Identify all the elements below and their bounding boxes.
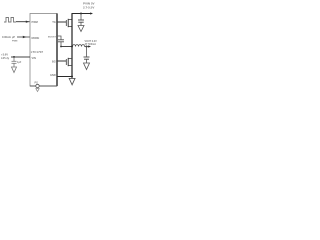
wire MODE input [17, 36, 30, 38]
exposed pad circle [36, 84, 39, 87]
svg-text:100kHz: 100kHz [2, 35, 12, 39]
wire GND pin [57, 76, 73, 78]
svg-text:GND: GND [50, 73, 56, 77]
capacitor C1 [12, 57, 17, 67]
ground under C2 [78, 26, 84, 32]
capacitor C3 [58, 40, 64, 47]
IC U1 regulator body [30, 14, 57, 87]
ground under C4 [84, 63, 90, 70]
arrow into PWM pin [26, 21, 29, 23]
wire Q2 source down [71, 66, 73, 77]
wire PWM input [16, 21, 30, 23]
svg-text:µP: µP [12, 36, 15, 39]
node PGND junction [71, 76, 73, 78]
wire boost to SW [61, 46, 72, 48]
wire stub to ground [71, 77, 73, 79]
square wave source [4, 18, 16, 23]
node rail junction [80, 13, 82, 15]
node VIN junction [13, 56, 15, 58]
arrow into MODE pin [23, 36, 27, 39]
svg-text:PWM: PWM [32, 20, 38, 24]
node SW junction [71, 46, 73, 48]
node VOUT junction [86, 46, 88, 48]
ground under C1 [12, 67, 17, 73]
svg-text:+3.6V: +3.6V [1, 53, 8, 57]
svg-text:TG: TG [52, 20, 56, 24]
svg-text:AT 500mA: AT 500mA [85, 43, 97, 46]
svg-text:LTC1707: LTC1707 [31, 50, 44, 54]
ground main [69, 78, 75, 84]
svg-text:BOOST: BOOST [48, 37, 56, 39]
node boost junction [60, 46, 62, 48]
ground under pad [36, 89, 39, 92]
svg-text:2.7-5.5V: 2.7-5.5V [83, 6, 94, 10]
svg-text:LiPoly: LiPoly [1, 56, 10, 60]
wire SW node [71, 27, 73, 66]
capacitor C2 [78, 14, 84, 26]
wire BOOST pin [57, 36, 61, 40]
arrow VIN rail end [90, 12, 93, 14]
svg-text:MODE: MODE [32, 36, 40, 40]
transistor Q1 [66, 19, 72, 27]
svg-text:BG: BG [52, 60, 56, 64]
wire TG gate [57, 21, 66, 23]
arrow VOUT [88, 45, 91, 47]
capacitor C4 [84, 47, 90, 64]
inductor L1 [73, 45, 85, 47]
wire VIN [11, 56, 30, 58]
wire VIN rail [72, 13, 92, 15]
svg-text:PWM: PWM [12, 40, 18, 42]
wire VOUT [85, 46, 90, 48]
wire Q1 drain to rail [71, 14, 73, 27]
svg-text:1µF: 1µF [17, 61, 22, 64]
wire BG gate [57, 60, 66, 62]
svg-text:VIN: VIN [32, 56, 36, 60]
transistor Q2 [66, 58, 72, 66]
